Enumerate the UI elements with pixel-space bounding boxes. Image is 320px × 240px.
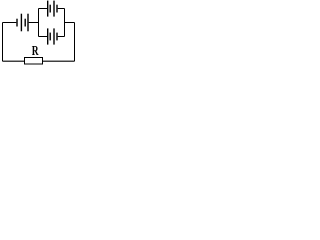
- battery B1 tall plate 2: [27, 14, 29, 32]
- wire from battery B1 to node A: [29, 22, 39, 24]
- battery B2 tall plate 1: [47, 1, 49, 17]
- battery B3 tall plate 1: [47, 28, 49, 44]
- battery B1 short plate 1: [16, 19, 18, 27]
- wire left rail: [2, 23, 4, 62]
- wire bottom right to resistor: [43, 60, 75, 62]
- wire bottom branch right: [58, 36, 65, 38]
- battery B2 short plate 2: [56, 5, 58, 13]
- battery B2 tall plate 2: [53, 1, 55, 17]
- wire right rail: [74, 23, 76, 62]
- battery B3 short plate 2: [56, 33, 58, 41]
- wire bottom left from resistor to left rail: [3, 60, 25, 62]
- node A: left vertical of parallel section: [38, 9, 40, 37]
- battery B3 tall plate 2: [53, 28, 55, 44]
- battery B1 tall plate 1: [20, 14, 22, 32]
- wire mid-left from left rail to battery B1: [3, 22, 17, 24]
- node B: right vertical of parallel section: [64, 9, 66, 37]
- wire top branch right: [58, 8, 65, 10]
- wire top branch left: [39, 8, 48, 10]
- svg-text:R: R: [32, 43, 39, 58]
- battery B1 short plate 2: [24, 19, 26, 27]
- battery B3 short plate 1: [49, 33, 51, 41]
- battery B2 short plate 1: [49, 5, 51, 13]
- resistor R box: [25, 58, 43, 65]
- wire bottom branch left: [39, 36, 48, 38]
- wire from node B to right rail: [65, 22, 75, 24]
